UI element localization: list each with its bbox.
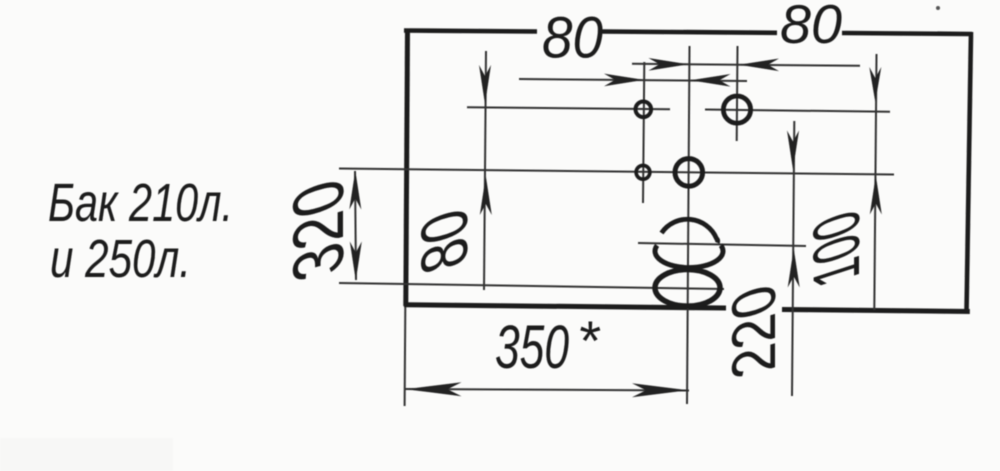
- arrow up at x793 y248 (220 bottom): [788, 249, 800, 288]
- dimension line y390 (350): [404, 389, 689, 391]
- svg-text:*: *: [577, 309, 601, 372]
- central vertical axis x688: [687, 46, 690, 404]
- big top hole: [723, 96, 750, 123]
- arrow right at x688 y390 (350 right): [632, 383, 688, 397]
- vertical dimension line x793 (220): [792, 121, 794, 396]
- scan speck top right: [936, 6, 940, 10]
- arrow right at x688 y64: [649, 58, 689, 71]
- arrow down at x485 y104: [479, 65, 491, 104]
- extension line below left tank edge: [404, 307, 407, 406]
- filler neck lower ellipse: [655, 270, 720, 307]
- arrow left at x690 y80: [691, 74, 731, 87]
- svg-text:80: 80: [780, 0, 842, 55]
- arrow up at x485 y176: [480, 176, 492, 215]
- dimension line y64 (80 right): [632, 64, 860, 66]
- svg-text:80: 80: [407, 197, 481, 288]
- neck arc centerline y245: [638, 243, 806, 246]
- tank outline top edge segment 3: [842, 33, 972, 34]
- svg-text:Бак 210л.: Бак 210л.: [48, 173, 233, 233]
- hole row 1 centerline right part: [705, 110, 890, 112]
- arrow up at x355 y171 (320 top): [349, 171, 361, 210]
- tank outline bottom edge segment 2: [782, 310, 970, 312]
- tank outline top edge segment 2: [600, 32, 777, 33]
- tank outline top edge segment 1: [404, 31, 537, 32]
- filler neck top arc: [662, 219, 718, 243]
- hole row 2 centerline: [339, 169, 894, 175]
- arrow right at x644 y80: [604, 74, 644, 87]
- hole row 1 centerline left part: [467, 107, 670, 109]
- extension line y286 (320 bottom): [339, 283, 724, 289]
- arrow up at x875 y175 (100 bottom): [870, 176, 882, 215]
- arrow down at x355 y280 (320 bottom): [350, 242, 362, 281]
- tank outline right edge: [967, 32, 972, 313]
- svg-text:320: 320: [278, 166, 358, 297]
- filler neck upper loop: [655, 245, 723, 267]
- vertical dimension line x485 (80 vertical): [484, 51, 486, 290]
- svg-text:80: 80: [542, 6, 603, 71]
- faint scan haze bottom left: [0, 438, 173, 471]
- centerline of big top hole x737: [736, 46, 739, 141]
- centerline of small holes x644: [643, 62, 644, 203]
- svg-text:и 250л.: и 250л.: [50, 229, 191, 289]
- arrow down at x875 y102 (100 top): [869, 67, 881, 102]
- tank outline bottom edge segment 1: [404, 305, 726, 308]
- arrow down at x793 y169 (220 top): [787, 131, 799, 170]
- svg-text:350: 350: [495, 313, 569, 381]
- small hole 1: [636, 102, 652, 118]
- tank outline left edge: [406, 29, 408, 307]
- svg-text:220: 220: [719, 273, 789, 393]
- arrow left at x739 y64: [739, 59, 779, 72]
- dimension line y80 (80 left): [519, 79, 747, 81]
- arrow left at x405 y389 (350 left): [406, 382, 462, 396]
- small hole 2: [636, 165, 650, 179]
- medium hole row 2: [675, 159, 703, 187]
- svg-text:100: 100: [799, 199, 873, 302]
- vertical dimension line x875 (100): [874, 54, 876, 310]
- vertical dimension line x355 (320): [355, 171, 356, 280]
